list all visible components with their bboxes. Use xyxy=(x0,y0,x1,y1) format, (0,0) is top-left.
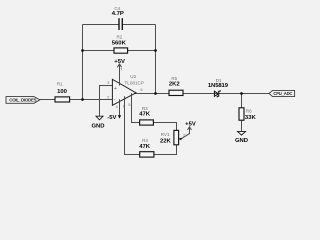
resistor R6 33K vertical xyxy=(239,108,256,121)
wire op-amp pin 1 to R4 xyxy=(125,96,140,154)
svg-text:R5: R5 xyxy=(171,76,177,81)
wire feedback right rail xyxy=(155,25,157,94)
svg-text:1N5819: 1N5819 xyxy=(208,83,229,89)
pin number 6 xyxy=(140,87,143,92)
svg-text:R1: R1 xyxy=(57,82,63,87)
op-amp U1 TL081CP triangle xyxy=(112,74,144,105)
pin number 1 xyxy=(123,103,126,108)
pin number 2 xyxy=(107,94,110,99)
-5V supply arrow op-amp xyxy=(107,115,121,121)
resistor R3 47K xyxy=(139,106,153,125)
node junction dot R2 left xyxy=(81,49,84,52)
diode D1 1N5819 schottky xyxy=(208,78,229,98)
resistor R4 47K xyxy=(139,138,154,157)
wire R6 bottom to ground xyxy=(241,120,243,131)
svg-text:560K: 560K xyxy=(112,41,127,47)
svg-text:RV1: RV1 xyxy=(161,132,170,137)
svg-text:GND: GND xyxy=(235,138,248,144)
svg-text:R2: R2 xyxy=(116,35,122,40)
wire R3 to RV1 top xyxy=(153,123,176,131)
pin number 5 xyxy=(128,102,131,107)
svg-text:33K: 33K xyxy=(245,115,257,121)
svg-text:2K2: 2K2 xyxy=(169,82,181,88)
svg-text:R3: R3 xyxy=(142,106,148,111)
pin number 2 wiper xyxy=(183,132,186,137)
pin number 4 xyxy=(115,104,118,109)
pin number 7 xyxy=(120,67,123,72)
wire input net from tag to op-amp pin 2 xyxy=(40,99,113,101)
svg-text:+5V: +5V xyxy=(185,121,196,127)
wire feedback left rail xyxy=(82,25,84,100)
wire op-amp pin 5 to R3 xyxy=(132,93,140,122)
svg-text:TL081CP: TL081CP xyxy=(124,80,143,85)
svg-text:U2: U2 xyxy=(130,74,136,79)
wire output row to CPU_ADC xyxy=(135,93,270,95)
net tag CPU_ADC xyxy=(269,90,295,96)
wire op-amp pin 4 to -5V xyxy=(119,99,121,115)
svg-text:GND: GND xyxy=(91,124,104,130)
svg-text:R6: R6 xyxy=(246,109,252,114)
wire capacitor row xyxy=(83,24,156,26)
ground symbol right xyxy=(235,131,248,144)
potentiometer RV1 22K xyxy=(160,130,181,144)
node junction dot input xyxy=(81,98,84,101)
wire R2 row xyxy=(83,50,156,52)
svg-text:C4: C4 xyxy=(114,6,120,11)
svg-text:D1: D1 xyxy=(216,78,222,83)
node junction dot R6 tap xyxy=(240,92,243,95)
svg-text:CPU_ADC: CPU_ADC xyxy=(273,91,292,96)
svg-text:22K: 22K xyxy=(160,138,172,144)
svg-text:47K: 47K xyxy=(139,112,151,118)
node junction dot R2 right xyxy=(154,49,157,52)
resistor R2 560K xyxy=(112,35,128,54)
svg-text:+5V: +5V xyxy=(114,59,125,65)
svg-text:R4: R4 xyxy=(142,138,148,143)
svg-text:COIL_DIODES: COIL_DIODES xyxy=(9,98,36,103)
pin number 3 xyxy=(107,80,110,85)
svg-text:100: 100 xyxy=(57,89,68,95)
svg-text:4.7P: 4.7P xyxy=(112,11,124,17)
wire RV1 bottom to R4 xyxy=(154,145,177,155)
svg-text:-5V: -5V xyxy=(107,115,116,121)
svg-text:+: + xyxy=(114,86,117,92)
node junction dot output xyxy=(154,92,157,95)
net tag COIL_DIODES xyxy=(6,97,40,104)
capacitor C4 xyxy=(112,6,124,30)
wire op-amp pin 7 to +5V xyxy=(119,64,121,86)
wire R6 top xyxy=(241,94,243,108)
+5V supply arrow op-amp xyxy=(114,59,125,67)
ground symbol left xyxy=(91,116,104,129)
+5V supply arrow pot xyxy=(185,121,196,130)
wire op-amp pin 3 to ground xyxy=(100,86,113,117)
wire RV1 wiper to +5V xyxy=(181,128,190,139)
resistor R5 2K2 xyxy=(169,76,183,95)
resistor R1 100 xyxy=(55,82,70,103)
svg-text:47K: 47K xyxy=(139,144,151,150)
